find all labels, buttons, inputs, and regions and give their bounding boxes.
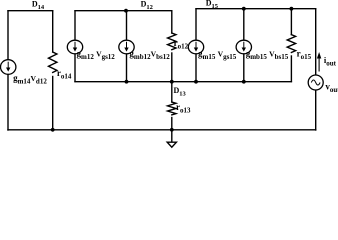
svg-text:gmb12Vbs12: gmb12Vbs12 <box>129 49 170 62</box>
svg-text:gm15 Vgs15: gm15 Vgs15 <box>198 49 237 62</box>
svg-text:ro15: ro15 <box>297 49 312 62</box>
svg-text:ro14: ro14 <box>57 68 72 81</box>
svg-text:D13: D13 <box>174 86 187 98</box>
svg-text:gmb15 Vbs15: gmb15 Vbs15 <box>246 49 289 62</box>
svg-text:vout: vout <box>325 81 338 94</box>
svg-text:iout: iout <box>324 55 337 68</box>
svg-text:D14: D14 <box>32 0 45 11</box>
svg-text:gm14Vd12: gm14Vd12 <box>13 73 47 86</box>
svg-text:ro13: ro13 <box>176 102 191 115</box>
svg-text:D12: D12 <box>141 0 153 11</box>
